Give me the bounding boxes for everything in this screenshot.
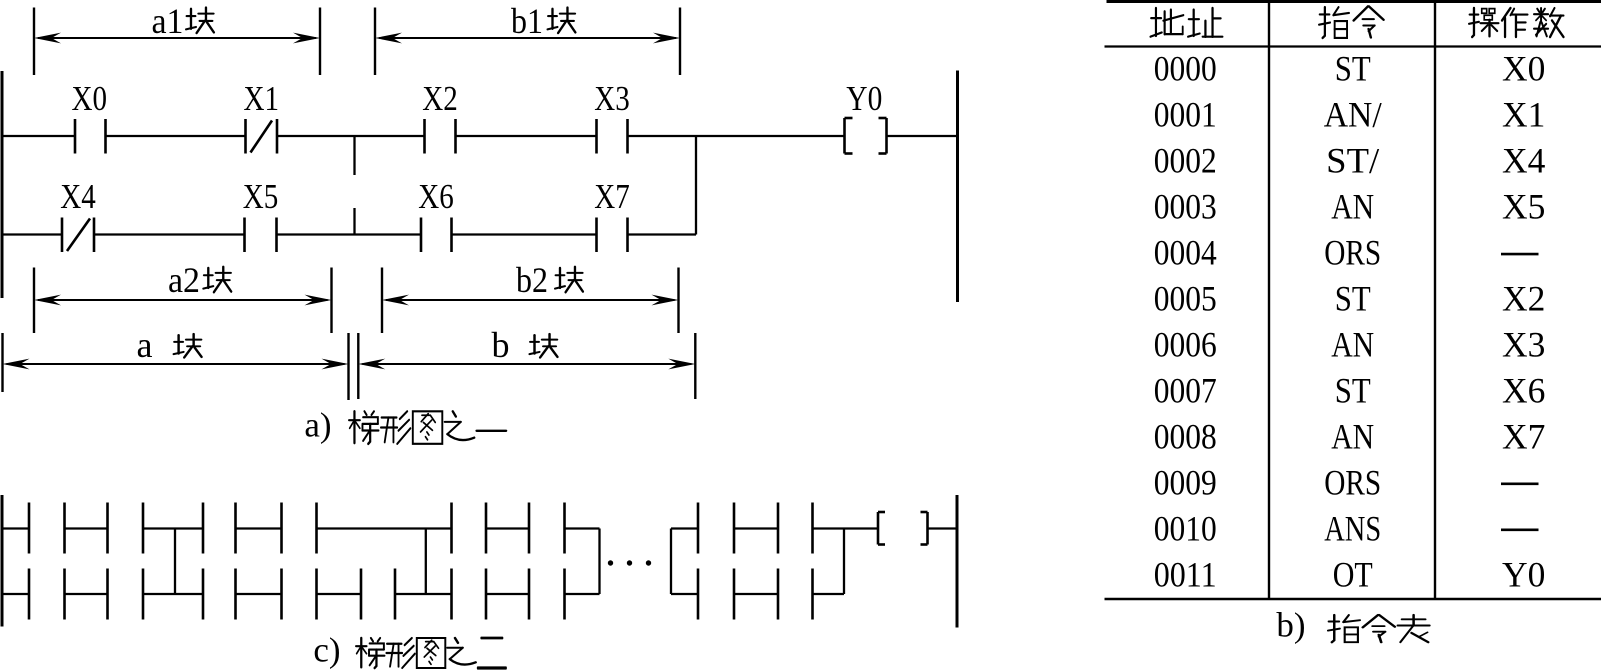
svg-text:AN: AN xyxy=(1331,416,1374,456)
svg-text:b1: b1 xyxy=(511,1,543,41)
svg-text:X6: X6 xyxy=(1502,370,1545,410)
svg-text:b2: b2 xyxy=(516,260,548,300)
svg-text:b: b xyxy=(492,325,510,365)
svg-text:ST: ST xyxy=(1335,370,1371,410)
svg-text:Y0: Y0 xyxy=(846,80,882,118)
svg-text:b): b) xyxy=(1276,606,1305,645)
svg-text:ANS: ANS xyxy=(1324,508,1381,548)
svg-text:X0: X0 xyxy=(72,80,108,118)
svg-text:0006: 0006 xyxy=(1154,324,1217,364)
svg-text:X1: X1 xyxy=(1502,95,1545,135)
svg-text:0009: 0009 xyxy=(1154,462,1217,502)
svg-text:0005: 0005 xyxy=(1154,279,1217,319)
svg-text:Y0: Y0 xyxy=(1502,554,1545,594)
svg-text:X1: X1 xyxy=(244,80,280,118)
svg-text:X2: X2 xyxy=(1502,279,1545,319)
svg-text:c): c) xyxy=(313,631,340,670)
svg-text:ST: ST xyxy=(1335,279,1371,319)
svg-text:X7: X7 xyxy=(1502,416,1545,456)
svg-text:a1: a1 xyxy=(152,1,184,41)
svg-text:ORS: ORS xyxy=(1324,462,1381,502)
svg-text:0007: 0007 xyxy=(1154,370,1217,410)
svg-text:AN: AN xyxy=(1331,324,1374,364)
svg-text:X3: X3 xyxy=(594,80,630,118)
svg-text:AN/: AN/ xyxy=(1324,95,1382,135)
svg-text:a): a) xyxy=(304,406,331,445)
svg-text:0001: 0001 xyxy=(1154,95,1217,135)
svg-text:X2: X2 xyxy=(422,80,458,118)
svg-text:AN: AN xyxy=(1331,187,1374,227)
svg-text:ORS: ORS xyxy=(1324,233,1381,273)
svg-text:X5: X5 xyxy=(1502,187,1545,227)
svg-text:ST: ST xyxy=(1335,49,1371,89)
svg-text:X4: X4 xyxy=(60,178,96,216)
svg-text:0002: 0002 xyxy=(1154,141,1217,181)
svg-text:X5: X5 xyxy=(243,178,279,216)
svg-text:a2: a2 xyxy=(168,260,200,300)
svg-text:0011: 0011 xyxy=(1154,554,1217,594)
svg-text:0008: 0008 xyxy=(1154,416,1217,456)
svg-text:0004: 0004 xyxy=(1154,233,1217,273)
svg-text:X6: X6 xyxy=(418,178,454,216)
svg-text:0010: 0010 xyxy=(1154,508,1217,548)
svg-text:X7: X7 xyxy=(594,178,630,216)
svg-text:ST/: ST/ xyxy=(1326,141,1379,181)
svg-text:X4: X4 xyxy=(1502,141,1546,181)
svg-text:X3: X3 xyxy=(1502,324,1545,364)
svg-text:OT: OT xyxy=(1333,554,1373,594)
svg-text:0000: 0000 xyxy=(1154,49,1217,89)
svg-text:a: a xyxy=(137,325,153,365)
svg-text:0003: 0003 xyxy=(1154,187,1217,227)
svg-text:X0: X0 xyxy=(1502,49,1545,89)
